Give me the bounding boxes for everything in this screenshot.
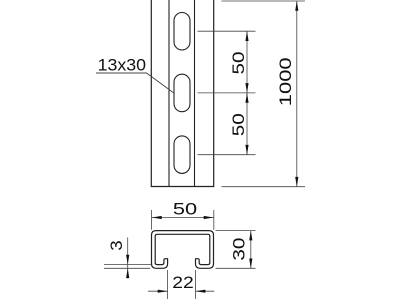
arrow up rail top: [295, 1, 298, 11]
text 30: [230, 238, 248, 261]
dimension line 1000: [296, 1, 298, 187]
svg-text:13x30: 13x30: [98, 56, 147, 74]
svg-text:50: 50: [173, 201, 197, 219]
dimension line 50/50: [246, 31, 248, 155]
arrow down-pointing 3: [126, 255, 129, 265]
rail right outer edge: [213, 0, 215, 187]
extension line 22 left: [167, 270, 169, 299]
extension line slot3 center: [198, 154, 256, 156]
text 50 upper: [230, 52, 248, 75]
arrow left 50 section: [152, 216, 162, 219]
slot hole 3: [174, 136, 190, 174]
section extension line left (50 top): [150, 210, 152, 230]
arrow right 50 section: [204, 216, 214, 219]
dimension line 22 left tail: [148, 290, 168, 292]
arrow down 30: [249, 259, 252, 269]
extension line 22 right: [195, 270, 197, 299]
arrow up 30: [249, 231, 252, 241]
arrow down rail bottom: [295, 177, 298, 187]
label 13x30: [98, 56, 147, 74]
dimension line 3: [127, 238, 129, 279]
extension line 3 lower: [104, 267, 150, 269]
svg-text:50: 50: [230, 52, 248, 75]
arrow left-pointing 22: [196, 290, 206, 293]
arrow right-pointing 22: [158, 290, 168, 293]
extension line 3 upper: [104, 264, 152, 266]
rail left outer edge: [150, 0, 152, 187]
svg-text:30: 30: [230, 238, 248, 261]
dimension line 22 right tail: [196, 290, 215, 292]
extension line slot1 center: [198, 30, 256, 32]
extension line rail top: [222, 0, 306, 2]
text 50 section: [173, 201, 197, 219]
text 3: [108, 240, 126, 250]
arrow up-pointing 3: [126, 268, 129, 278]
text 1000: [277, 57, 295, 106]
extension line 30 bottom: [216, 267, 256, 269]
svg-text:50: 50: [230, 113, 248, 136]
slot hole 1: [174, 13, 190, 51]
extension line 30 top: [216, 230, 256, 232]
svg-text:22: 22: [172, 274, 194, 292]
arrow down at slot3 center: [245, 145, 248, 155]
rail left fold line: [168, 0, 170, 187]
section extension line right (50 top): [213, 210, 215, 230]
dimension line 30: [250, 231, 252, 269]
leader line for 13x30: [96, 73, 175, 94]
slot hole 2: [174, 74, 190, 112]
arrow up at slot2 center: [245, 93, 248, 103]
C-profile cross-section: [152, 231, 214, 269]
extension line slot2 center: [198, 92, 256, 94]
arrow down at slot2 center: [245, 83, 248, 93]
rail right fold line: [194, 0, 196, 187]
svg-text:1000: 1000: [277, 57, 295, 106]
svg-text:3: 3: [108, 240, 126, 250]
text 22: [172, 274, 194, 292]
dimension line 50 section: [152, 217, 214, 219]
arrow up at slot1 center: [245, 31, 248, 41]
text 50 lower: [230, 113, 248, 136]
extension line rail bottom: [222, 186, 306, 188]
rail bottom edge: [151, 186, 215, 188]
